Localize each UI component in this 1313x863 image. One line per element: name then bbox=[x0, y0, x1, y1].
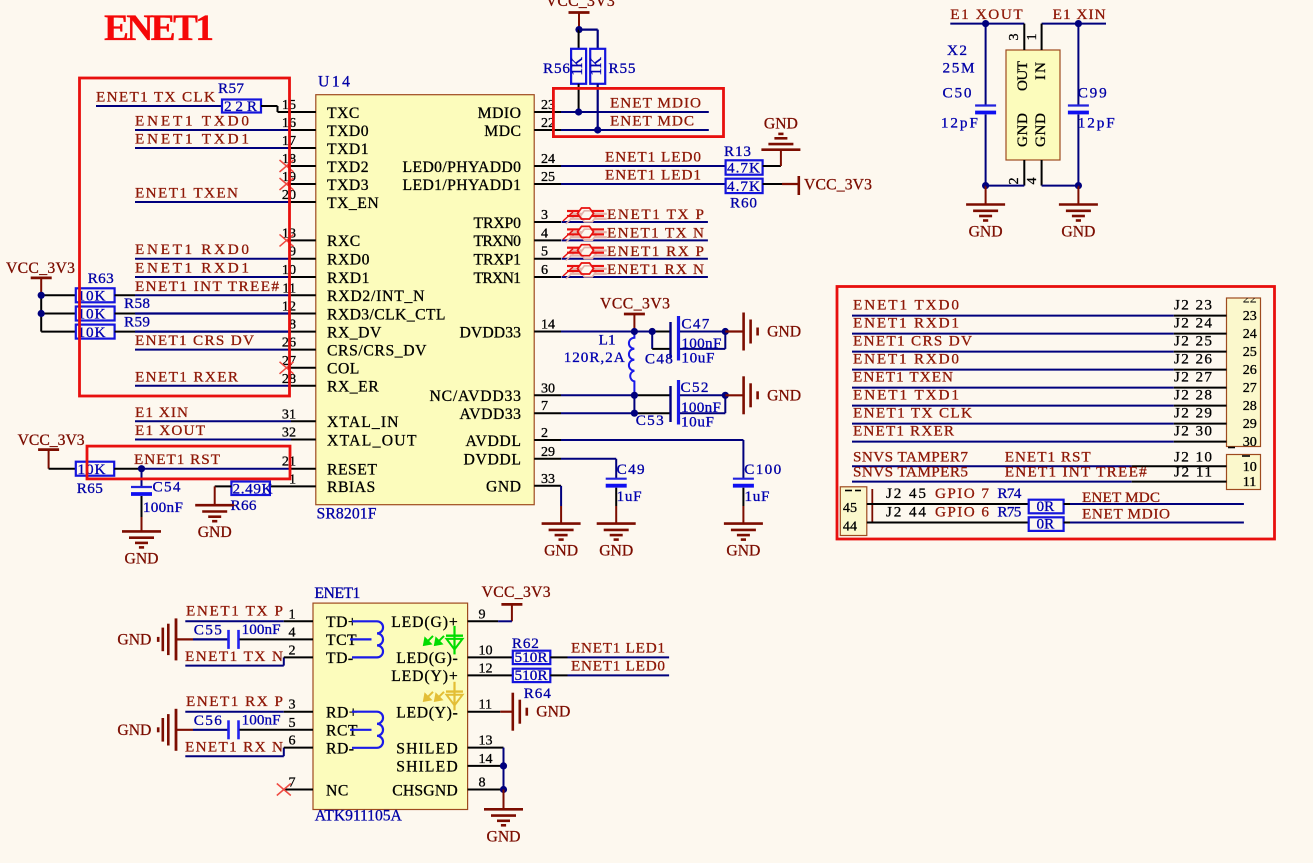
svg-text:10K: 10K bbox=[78, 288, 106, 305]
svg-text:5: 5 bbox=[288, 715, 295, 731]
svg-text:SR8201F: SR8201F bbox=[317, 506, 377, 523]
svg-text:2: 2 bbox=[541, 425, 548, 441]
svg-text:J2 26: J2 26 bbox=[1174, 351, 1212, 368]
svg-text:10uF: 10uF bbox=[681, 414, 714, 431]
svg-text:ATK911105A: ATK911105A bbox=[315, 808, 403, 825]
svg-text:VCC_3V3: VCC_3V3 bbox=[18, 432, 85, 449]
svg-text:1uF: 1uF bbox=[745, 488, 770, 505]
svg-text:ENET1 RX P: ENET1 RX P bbox=[186, 693, 283, 710]
svg-text:VCC_3V3: VCC_3V3 bbox=[600, 296, 670, 313]
svg-text:11: 11 bbox=[1243, 474, 1257, 490]
svg-text:12pF: 12pF bbox=[1078, 114, 1115, 131]
svg-text:GND: GND bbox=[1032, 113, 1049, 147]
svg-text:ENET1 LED1: ENET1 LED1 bbox=[605, 167, 701, 184]
svg-text:9: 9 bbox=[479, 606, 486, 622]
svg-text:14: 14 bbox=[541, 317, 555, 333]
svg-text:4.7K: 4.7K bbox=[727, 178, 760, 195]
svg-text:GND: GND bbox=[536, 704, 570, 721]
svg-text:GND: GND bbox=[544, 543, 578, 560]
svg-text:14: 14 bbox=[479, 751, 493, 767]
svg-text:GND: GND bbox=[767, 324, 801, 341]
svg-text:ENET MDIO: ENET MDIO bbox=[610, 95, 701, 112]
svg-text:RD+: RD+ bbox=[326, 705, 358, 722]
svg-text:2.49K: 2.49K bbox=[233, 481, 273, 498]
svg-text:L1: L1 bbox=[599, 332, 616, 349]
svg-text:4: 4 bbox=[541, 225, 548, 241]
svg-text:C52: C52 bbox=[681, 379, 709, 396]
svg-text:ENET1 INT TREE#: ENET1 INT TREE# bbox=[1005, 464, 1147, 481]
svg-text:6: 6 bbox=[541, 262, 548, 278]
svg-text:23: 23 bbox=[1243, 308, 1257, 324]
svg-text:GPIO 7: GPIO 7 bbox=[935, 485, 989, 502]
svg-text:100nF: 100nF bbox=[242, 711, 281, 728]
svg-text:27: 27 bbox=[1243, 380, 1257, 396]
svg-text:ENET1 TX CLK: ENET1 TX CLK bbox=[853, 405, 972, 422]
svg-text:NC/AVDD33: NC/AVDD33 bbox=[430, 388, 522, 405]
svg-text:RESET: RESET bbox=[327, 462, 377, 479]
svg-text:R57: R57 bbox=[218, 80, 244, 97]
svg-text:25: 25 bbox=[1243, 344, 1257, 360]
svg-text:LED1/PHYADD1: LED1/PHYADD1 bbox=[403, 177, 522, 194]
svg-text:C99: C99 bbox=[1078, 85, 1107, 102]
svg-text:1uF: 1uF bbox=[617, 488, 642, 505]
svg-text:ENET1 TXD1: ENET1 TXD1 bbox=[853, 387, 959, 404]
svg-text:10K: 10K bbox=[78, 461, 106, 478]
svg-text:ENET1: ENET1 bbox=[314, 585, 360, 602]
svg-text:11: 11 bbox=[479, 697, 493, 713]
svg-text:AVDDL: AVDDL bbox=[466, 433, 522, 450]
svg-text:ENET MDIO: ENET MDIO bbox=[1082, 506, 1170, 523]
svg-text:ENET1 TX P: ENET1 TX P bbox=[607, 206, 704, 223]
svg-text:XTAL_OUT: XTAL_OUT bbox=[327, 432, 417, 449]
svg-text:NC: NC bbox=[326, 782, 349, 799]
svg-text:RD-: RD- bbox=[326, 740, 355, 757]
svg-text:LED(G)+: LED(G)+ bbox=[391, 614, 458, 631]
svg-text:GND: GND bbox=[767, 387, 801, 404]
svg-text:ENET1 CRS DV: ENET1 CRS DV bbox=[135, 332, 254, 349]
svg-text:10: 10 bbox=[1243, 459, 1257, 475]
svg-text:C49: C49 bbox=[617, 461, 645, 478]
svg-text:ENET1 RST: ENET1 RST bbox=[134, 451, 221, 468]
svg-text:10K: 10K bbox=[78, 324, 106, 341]
svg-text:R63: R63 bbox=[88, 270, 114, 287]
svg-text:ENET1 TXD0: ENET1 TXD0 bbox=[853, 297, 959, 314]
svg-text:GND: GND bbox=[117, 722, 151, 739]
svg-text:ENET1 RX N: ENET1 RX N bbox=[607, 261, 704, 278]
svg-text:TRXP1: TRXP1 bbox=[474, 252, 522, 269]
svg-text:100nF: 100nF bbox=[143, 499, 183, 516]
svg-text:XTAL_IN: XTAL_IN bbox=[327, 414, 399, 431]
svg-text:ENET MDC: ENET MDC bbox=[1082, 489, 1160, 506]
svg-text:R56: R56 bbox=[543, 60, 570, 77]
svg-text:ENET1 TX CLK: ENET1 TX CLK bbox=[96, 89, 215, 106]
svg-text:TRXN0: TRXN0 bbox=[474, 233, 522, 250]
svg-text:4.7K: 4.7K bbox=[727, 160, 760, 177]
svg-text:LED(Y)+: LED(Y)+ bbox=[391, 668, 458, 685]
svg-text:ENET1 TX N: ENET1 TX N bbox=[185, 648, 283, 665]
svg-text:RXD1: RXD1 bbox=[327, 270, 370, 287]
svg-text:4: 4 bbox=[288, 624, 295, 640]
svg-text:GND: GND bbox=[764, 115, 798, 132]
svg-text:R60: R60 bbox=[730, 195, 757, 212]
svg-text:5: 5 bbox=[541, 244, 548, 260]
svg-text:RBIAS: RBIAS bbox=[327, 479, 376, 496]
svg-text:GND: GND bbox=[726, 543, 760, 560]
svg-text:SHILED: SHILED bbox=[396, 740, 458, 757]
svg-text:ENET1 TX N: ENET1 TX N bbox=[607, 225, 704, 242]
svg-text:30: 30 bbox=[541, 380, 555, 396]
svg-text:AVDD33: AVDD33 bbox=[460, 406, 522, 423]
svg-text:ENET1 TX P: ENET1 TX P bbox=[186, 603, 283, 620]
svg-text:100nF: 100nF bbox=[242, 621, 281, 638]
svg-text:J2 23: J2 23 bbox=[1174, 297, 1212, 314]
svg-text:ENET1 TXD1: ENET1 TXD1 bbox=[135, 131, 249, 148]
svg-text:ENET1 RX N: ENET1 RX N bbox=[185, 739, 283, 756]
svg-text:RX_ER: RX_ER bbox=[327, 379, 379, 396]
svg-text:TXD2: TXD2 bbox=[327, 159, 369, 176]
svg-text:VCC_3V3: VCC_3V3 bbox=[804, 177, 872, 194]
svg-text:3: 3 bbox=[541, 207, 548, 223]
svg-text:TX_EN: TX_EN bbox=[327, 195, 379, 212]
svg-text:GND: GND bbox=[1061, 224, 1095, 241]
svg-text:510R: 510R bbox=[515, 667, 549, 684]
svg-text:33: 33 bbox=[541, 471, 555, 487]
svg-text:R65: R65 bbox=[77, 480, 103, 497]
svg-text:TRXN1: TRXN1 bbox=[474, 270, 522, 287]
svg-text:GND: GND bbox=[487, 828, 521, 845]
svg-text:R74: R74 bbox=[997, 485, 1021, 502]
svg-text:13: 13 bbox=[479, 733, 493, 749]
svg-text:10uF: 10uF bbox=[681, 350, 714, 367]
svg-text:6: 6 bbox=[288, 733, 295, 749]
svg-text:RXC: RXC bbox=[327, 233, 361, 250]
svg-text:VCC_3V3: VCC_3V3 bbox=[482, 584, 551, 601]
svg-text:DVDDL: DVDDL bbox=[464, 452, 522, 469]
svg-text:R75: R75 bbox=[997, 504, 1021, 521]
svg-text:ENET1 LED0: ENET1 LED0 bbox=[605, 149, 701, 166]
svg-text:VCC_3V3: VCC_3V3 bbox=[546, 0, 615, 10]
svg-text:J2 30: J2 30 bbox=[1174, 423, 1212, 440]
svg-text:3: 3 bbox=[288, 697, 295, 713]
svg-text:22R: 22R bbox=[224, 98, 258, 115]
svg-text:3: 3 bbox=[1006, 33, 1022, 40]
svg-text:25M: 25M bbox=[943, 59, 975, 76]
svg-text:J2 24: J2 24 bbox=[1174, 315, 1212, 332]
svg-text:10: 10 bbox=[479, 642, 493, 658]
svg-text:TD+: TD+ bbox=[326, 614, 357, 631]
svg-text:U14: U14 bbox=[318, 74, 350, 91]
svg-text:RXD0: RXD0 bbox=[327, 252, 370, 269]
svg-text:J2 28: J2 28 bbox=[1174, 387, 1212, 404]
svg-text:C55: C55 bbox=[194, 621, 222, 638]
svg-text:R64: R64 bbox=[524, 685, 551, 702]
svg-text:COL: COL bbox=[327, 361, 360, 378]
svg-text:RXD2/INT_N: RXD2/INT_N bbox=[327, 288, 425, 305]
svg-text:2: 2 bbox=[288, 642, 295, 658]
svg-text:12: 12 bbox=[479, 660, 493, 676]
svg-text:29: 29 bbox=[541, 444, 555, 460]
svg-text:GND: GND bbox=[599, 543, 633, 560]
svg-text:31: 31 bbox=[282, 406, 296, 422]
svg-text:26: 26 bbox=[1243, 362, 1257, 378]
svg-text:SHILED: SHILED bbox=[396, 759, 458, 776]
svg-text:RX_DV: RX_DV bbox=[327, 324, 382, 341]
svg-text:8: 8 bbox=[479, 775, 486, 791]
svg-text:E1 XIN: E1 XIN bbox=[135, 404, 188, 421]
svg-text:29: 29 bbox=[1243, 416, 1257, 432]
svg-text:GND: GND bbox=[198, 524, 232, 541]
svg-text:44: 44 bbox=[843, 518, 857, 534]
svg-text:30: 30 bbox=[1243, 434, 1257, 450]
svg-text:R59: R59 bbox=[124, 314, 150, 331]
svg-text:R66: R66 bbox=[231, 497, 257, 514]
svg-text:ENET MDC: ENET MDC bbox=[610, 113, 694, 130]
svg-text:C50: C50 bbox=[943, 85, 972, 102]
svg-text:32: 32 bbox=[282, 425, 296, 441]
svg-text:ENET1 RXD0: ENET1 RXD0 bbox=[853, 351, 959, 368]
svg-text:1K: 1K bbox=[588, 57, 605, 76]
svg-text:TRXP0: TRXP0 bbox=[474, 215, 522, 232]
svg-text:45: 45 bbox=[843, 500, 857, 516]
svg-text:TXC: TXC bbox=[327, 105, 360, 122]
svg-text:GPIO 6: GPIO 6 bbox=[935, 504, 989, 521]
svg-text:ENET1 LED0: ENET1 LED0 bbox=[571, 658, 665, 675]
svg-text:12pF: 12pF bbox=[941, 114, 978, 131]
svg-text:RXD3/CLK_CTL: RXD3/CLK_CTL bbox=[327, 306, 446, 323]
svg-text:0R: 0R bbox=[1037, 516, 1056, 533]
svg-text:CHSGND: CHSGND bbox=[392, 782, 458, 799]
svg-text:MDIO: MDIO bbox=[478, 105, 522, 122]
svg-text:24: 24 bbox=[1243, 326, 1257, 342]
svg-text:R13: R13 bbox=[724, 143, 751, 160]
svg-text:C53: C53 bbox=[636, 412, 664, 429]
svg-text:ENET1 LED1: ENET1 LED1 bbox=[571, 640, 665, 657]
svg-text:GND: GND bbox=[125, 550, 159, 567]
svg-text:J2 27: J2 27 bbox=[1174, 369, 1212, 386]
svg-text:ENET1 RXER: ENET1 RXER bbox=[853, 423, 955, 440]
svg-text:X2: X2 bbox=[947, 42, 967, 59]
svg-text:120R,2A: 120R,2A bbox=[564, 349, 625, 366]
svg-text:GND: GND bbox=[969, 224, 1003, 241]
svg-text:ENET1 RX P: ENET1 RX P bbox=[607, 243, 704, 260]
svg-text:ENET1 RXD1: ENET1 RXD1 bbox=[853, 315, 959, 332]
svg-text:OUT: OUT bbox=[1014, 60, 1031, 91]
svg-text:TXD1: TXD1 bbox=[327, 141, 369, 158]
svg-text:1: 1 bbox=[1024, 33, 1040, 40]
svg-text:LED(Y)-: LED(Y)- bbox=[396, 705, 458, 722]
svg-text:SNVS TAMPER5: SNVS TAMPER5 bbox=[853, 464, 968, 481]
svg-text:2: 2 bbox=[1006, 177, 1022, 184]
svg-text:C48: C48 bbox=[645, 351, 673, 368]
svg-text:ENET1 TXEN: ENET1 TXEN bbox=[135, 185, 238, 202]
svg-text:28: 28 bbox=[1243, 398, 1257, 414]
svg-text:7: 7 bbox=[541, 398, 548, 414]
svg-text:ENET1 CRS DV: ENET1 CRS DV bbox=[853, 333, 972, 350]
svg-text:C56: C56 bbox=[194, 712, 222, 729]
svg-text:10K: 10K bbox=[78, 306, 106, 323]
svg-text:CRS/CRS_DV: CRS/CRS_DV bbox=[327, 342, 427, 359]
svg-text:C47: C47 bbox=[681, 315, 709, 332]
svg-text:DVDD33: DVDD33 bbox=[460, 324, 522, 341]
svg-text:C100: C100 bbox=[744, 461, 781, 478]
svg-text:R55: R55 bbox=[609, 60, 636, 77]
svg-text:RCT: RCT bbox=[326, 723, 358, 740]
svg-text:ENET1: ENET1 bbox=[104, 8, 214, 49]
svg-text:J2 29: J2 29 bbox=[1174, 405, 1212, 422]
svg-text:1: 1 bbox=[288, 606, 295, 622]
svg-text:24: 24 bbox=[541, 151, 555, 167]
svg-text:ENET1 TXEN: ENET1 TXEN bbox=[853, 369, 953, 386]
svg-text:TCT: TCT bbox=[326, 632, 357, 649]
svg-text:TD-: TD- bbox=[326, 650, 354, 667]
svg-text:LED(G)-: LED(G)- bbox=[396, 650, 458, 667]
svg-text:ENET1 RXD1: ENET1 RXD1 bbox=[135, 260, 249, 277]
svg-text:7: 7 bbox=[288, 775, 295, 791]
svg-text:1K: 1K bbox=[569, 57, 586, 76]
svg-text:J2 25: J2 25 bbox=[1174, 333, 1212, 350]
svg-text:TXD0: TXD0 bbox=[327, 123, 369, 140]
svg-text:C54: C54 bbox=[153, 479, 181, 496]
svg-text:R62: R62 bbox=[512, 635, 539, 652]
svg-text:LED0/PHYADD0: LED0/PHYADD0 bbox=[403, 159, 522, 176]
svg-text:R58: R58 bbox=[124, 295, 150, 312]
svg-text:TXD3: TXD3 bbox=[327, 177, 369, 194]
svg-text:ENET1 TXD0: ENET1 TXD0 bbox=[135, 113, 249, 130]
svg-text:GND: GND bbox=[486, 479, 522, 496]
svg-text:MDC: MDC bbox=[484, 123, 521, 140]
svg-text:GND: GND bbox=[117, 631, 151, 648]
svg-text:25: 25 bbox=[541, 169, 555, 185]
svg-text:4: 4 bbox=[1024, 177, 1040, 184]
svg-text:GND: GND bbox=[1014, 113, 1031, 147]
svg-text:IN: IN bbox=[1032, 62, 1049, 80]
svg-text:J2 11: J2 11 bbox=[1174, 464, 1212, 481]
svg-text:0R: 0R bbox=[1037, 498, 1056, 515]
svg-text:VCC_3V3: VCC_3V3 bbox=[6, 260, 75, 277]
